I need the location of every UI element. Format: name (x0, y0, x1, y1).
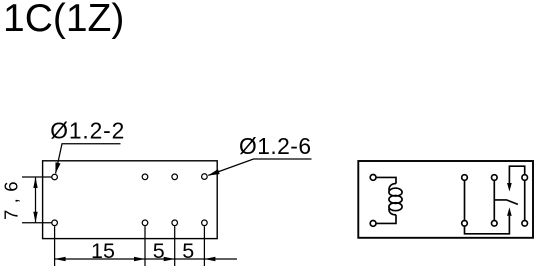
bottom dim extension line pin1 (54, 226, 56, 266)
hole top-left (coil pin) (52, 174, 58, 180)
dim 7,6 arrowhead down (33, 212, 37, 223)
coil bottom connector arc (389, 208, 396, 215)
dim 7,6 arrowhead up (33, 177, 37, 188)
coil loop 2 (389, 195, 402, 203)
wire coil top (376, 177, 396, 183)
hole top contact 3 (202, 174, 208, 180)
wire col3 vertical (524, 181, 526, 221)
coil terminal bottom (370, 221, 376, 227)
wire col1 vertical (464, 181, 466, 221)
hole top contact 1 (142, 174, 148, 180)
arrowhead right of 15 (134, 257, 145, 261)
svg-text:Ø1.2-6: Ø1.2-6 (239, 133, 311, 159)
arrowhead left of 15 (55, 257, 66, 261)
hole bottom contact 1 (142, 220, 148, 226)
coil loop 1 (389, 188, 402, 196)
svg-text:7,6: 7,6 (0, 182, 21, 221)
NO wire from col1 bottom (465, 216, 510, 234)
hole top contact 2 (172, 174, 178, 180)
leader line for Ø1.2-6 (208, 159, 311, 175)
svg-text:5: 5 (182, 239, 194, 263)
NC arrowhead down (507, 183, 512, 192)
hole bottom-left (coil pin) (52, 220, 58, 226)
dim 7,6 extension line top (22, 176, 52, 178)
dim 7,6 dimension line (35, 177, 37, 223)
coil terminal top (370, 175, 376, 181)
dim 7,6 extension line bottom (22, 222, 52, 224)
leader arrowhead at hole Ø1.2-2 (55, 162, 60, 173)
NC wire loop from col3 top (509, 166, 524, 183)
wire coil bottom (376, 215, 396, 224)
leader line for Ø1.2-2 (56, 144, 121, 174)
NO arrowhead up (507, 207, 512, 216)
coil top connector arc (389, 184, 396, 191)
bottom dimension line (55, 258, 237, 260)
arrowhead right of first 5 (164, 257, 175, 261)
svg-text:15: 15 (91, 239, 115, 263)
hole bottom contact 3 (202, 220, 208, 226)
hole bottom contact 2 (172, 220, 178, 226)
svg-text:Ø1.2-2: Ø1.2-2 (50, 118, 124, 144)
contact terminal col2 bottom (492, 221, 498, 227)
bottom dim extension line pin4 (203, 226, 205, 266)
switch blade (494, 200, 518, 205)
wire col2 vertical (493, 181, 495, 221)
arrowhead outside right pointing left (204, 257, 215, 261)
leader arrowhead at hole Ø1.2-6 (208, 169, 220, 175)
schematic outline rectangle (358, 161, 533, 238)
PCB outline rectangle (43, 161, 218, 239)
coil loop 3 (389, 203, 402, 211)
svg-text:1C(1Z): 1C(1Z) (3, 0, 124, 40)
contact terminal col1 top (462, 175, 468, 181)
bottom dim extension line pin2 (144, 226, 146, 266)
contact terminal col2 top (492, 175, 498, 181)
contact terminal col1 bottom (462, 221, 468, 227)
bottom dim extension line pin3 (174, 226, 176, 266)
contact terminal col3 bottom (522, 221, 528, 227)
contact terminal col3 top (522, 175, 528, 181)
svg-text:5: 5 (153, 239, 165, 263)
